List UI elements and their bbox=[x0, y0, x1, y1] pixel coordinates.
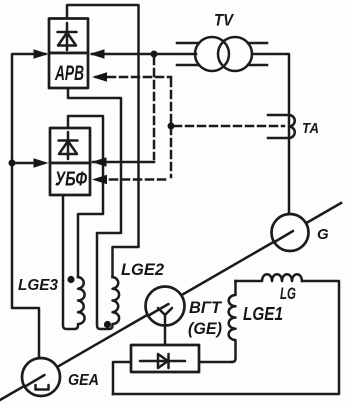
block АРВ rectifier section bbox=[49, 19, 88, 54]
block УБФ rectifier section bbox=[50, 128, 90, 163]
wire: TV right stub bottom bbox=[248, 64, 267, 67]
block АРВ regulator section bbox=[49, 53, 88, 88]
arrowhead: into АРВ left bbox=[34, 49, 49, 58]
transformer TV primary circle bbox=[195, 37, 229, 71]
generator G circle bbox=[272, 214, 309, 251]
arrowhead: into УБФ dashed input bbox=[92, 175, 107, 184]
winding LGE3 bbox=[63, 195, 85, 329]
polarity dot LGE2 bbox=[104, 321, 111, 328]
arrowhead: into АРВ dashed input bbox=[92, 72, 107, 81]
dashed: vertical current-signal bus bbox=[170, 79, 173, 177]
diode VD2 inside УБФ bbox=[59, 132, 78, 159]
winding LG bbox=[236, 274, 303, 281]
dashed: TA signal line bbox=[174, 125, 284, 128]
shaft stub inside ВГТ bbox=[149, 304, 169, 316]
diode VD1 inside АРВ bbox=[58, 23, 77, 50]
winding LGE1 bbox=[229, 281, 236, 362]
wire: field circuit bottom and right side with LG winding top bbox=[113, 281, 339, 394]
block УБФ regulator section bbox=[50, 163, 90, 195]
svg-text:G: G bbox=[317, 226, 329, 243]
wire: УБФ top loop to LGE3 winding line bbox=[68, 116, 103, 277]
current transformer TA winding bumps bbox=[289, 115, 295, 138]
dashed: voltage tap from TV line down to УБФ arrow bbox=[153, 57, 156, 159]
svg-text:ВГТ: ВГТ bbox=[189, 299, 223, 317]
wire: TV left stub bottom bbox=[177, 64, 199, 67]
shaft line (generator shaft diagonal) bbox=[0, 203, 341, 400]
winding LGE2 bbox=[68, 88, 121, 329]
svg-text:АРВ: АРВ bbox=[54, 62, 84, 85]
arrowhead: into УБФ right bbox=[92, 157, 107, 166]
brush symbol inside GEA bbox=[36, 385, 49, 390]
junction dot on TV line bbox=[151, 51, 158, 58]
wire: ВГТ output to rectifier box bbox=[164, 325, 167, 345]
wire: rectifier box right lead to LGE1 bbox=[199, 361, 232, 364]
wire: TV right stub top bbox=[248, 42, 267, 45]
wire: TV secondary line to АРВ right arrow bbox=[92, 53, 196, 56]
current transformer TA lower lead bbox=[268, 137, 289, 140]
rectifier box VD bbox=[131, 345, 199, 372]
junction dot on dashed TA bus bbox=[168, 123, 175, 130]
svg-text:УБФ: УБФ bbox=[55, 169, 87, 191]
polarity dot LGE3 bbox=[67, 276, 74, 283]
dashed: АРВ current input line bbox=[96, 76, 171, 79]
wire: rectifier box left lead down to field bus bbox=[113, 362, 131, 394]
svg-text:TV: TV bbox=[214, 12, 235, 30]
wire: TV right line down to generator G bbox=[252, 54, 289, 214]
svg-text:ТА: ТА bbox=[302, 120, 319, 137]
svg-text:LGE2: LGE2 bbox=[121, 260, 165, 279]
sub-exciter GEA circle bbox=[22, 358, 60, 396]
svg-text:LGE3: LGE3 bbox=[18, 277, 58, 294]
shaft stub inside G bbox=[275, 231, 294, 242]
diode VD3 inside rectifier box bbox=[140, 354, 185, 368]
svg-text:LGE1: LGE1 bbox=[243, 304, 283, 324]
wire: УБФ left arrow line bbox=[12, 162, 44, 165]
arrowhead: into АРВ right bbox=[90, 49, 105, 58]
junction dot on left bus bbox=[9, 160, 16, 167]
svg-text:(GE): (GE) bbox=[188, 319, 222, 338]
arrowhead: into УБФ left bbox=[34, 158, 49, 167]
shaft stub inside GEA bbox=[25, 375, 45, 387]
wire: left excitation bus from APB left arrow down to GEA bbox=[12, 54, 45, 358]
exciter ВГТ (GE) circle bbox=[146, 287, 185, 326]
transformer TV secondary circle bbox=[218, 37, 252, 71]
wire: АРВ top loop to LGE2 winding line bbox=[67, 5, 139, 277]
Y symbol inside ВГТ bbox=[158, 308, 172, 325]
wire: TV left stub top bbox=[177, 42, 199, 45]
dashed: УБФ current input line bbox=[98, 178, 169, 181]
wire: УБФ right arrow solid line bbox=[93, 161, 154, 164]
svg-text:LG: LG bbox=[280, 284, 296, 303]
svg-text:GEA: GEA bbox=[68, 372, 99, 389]
current transformer TA upper lead bbox=[268, 114, 289, 117]
